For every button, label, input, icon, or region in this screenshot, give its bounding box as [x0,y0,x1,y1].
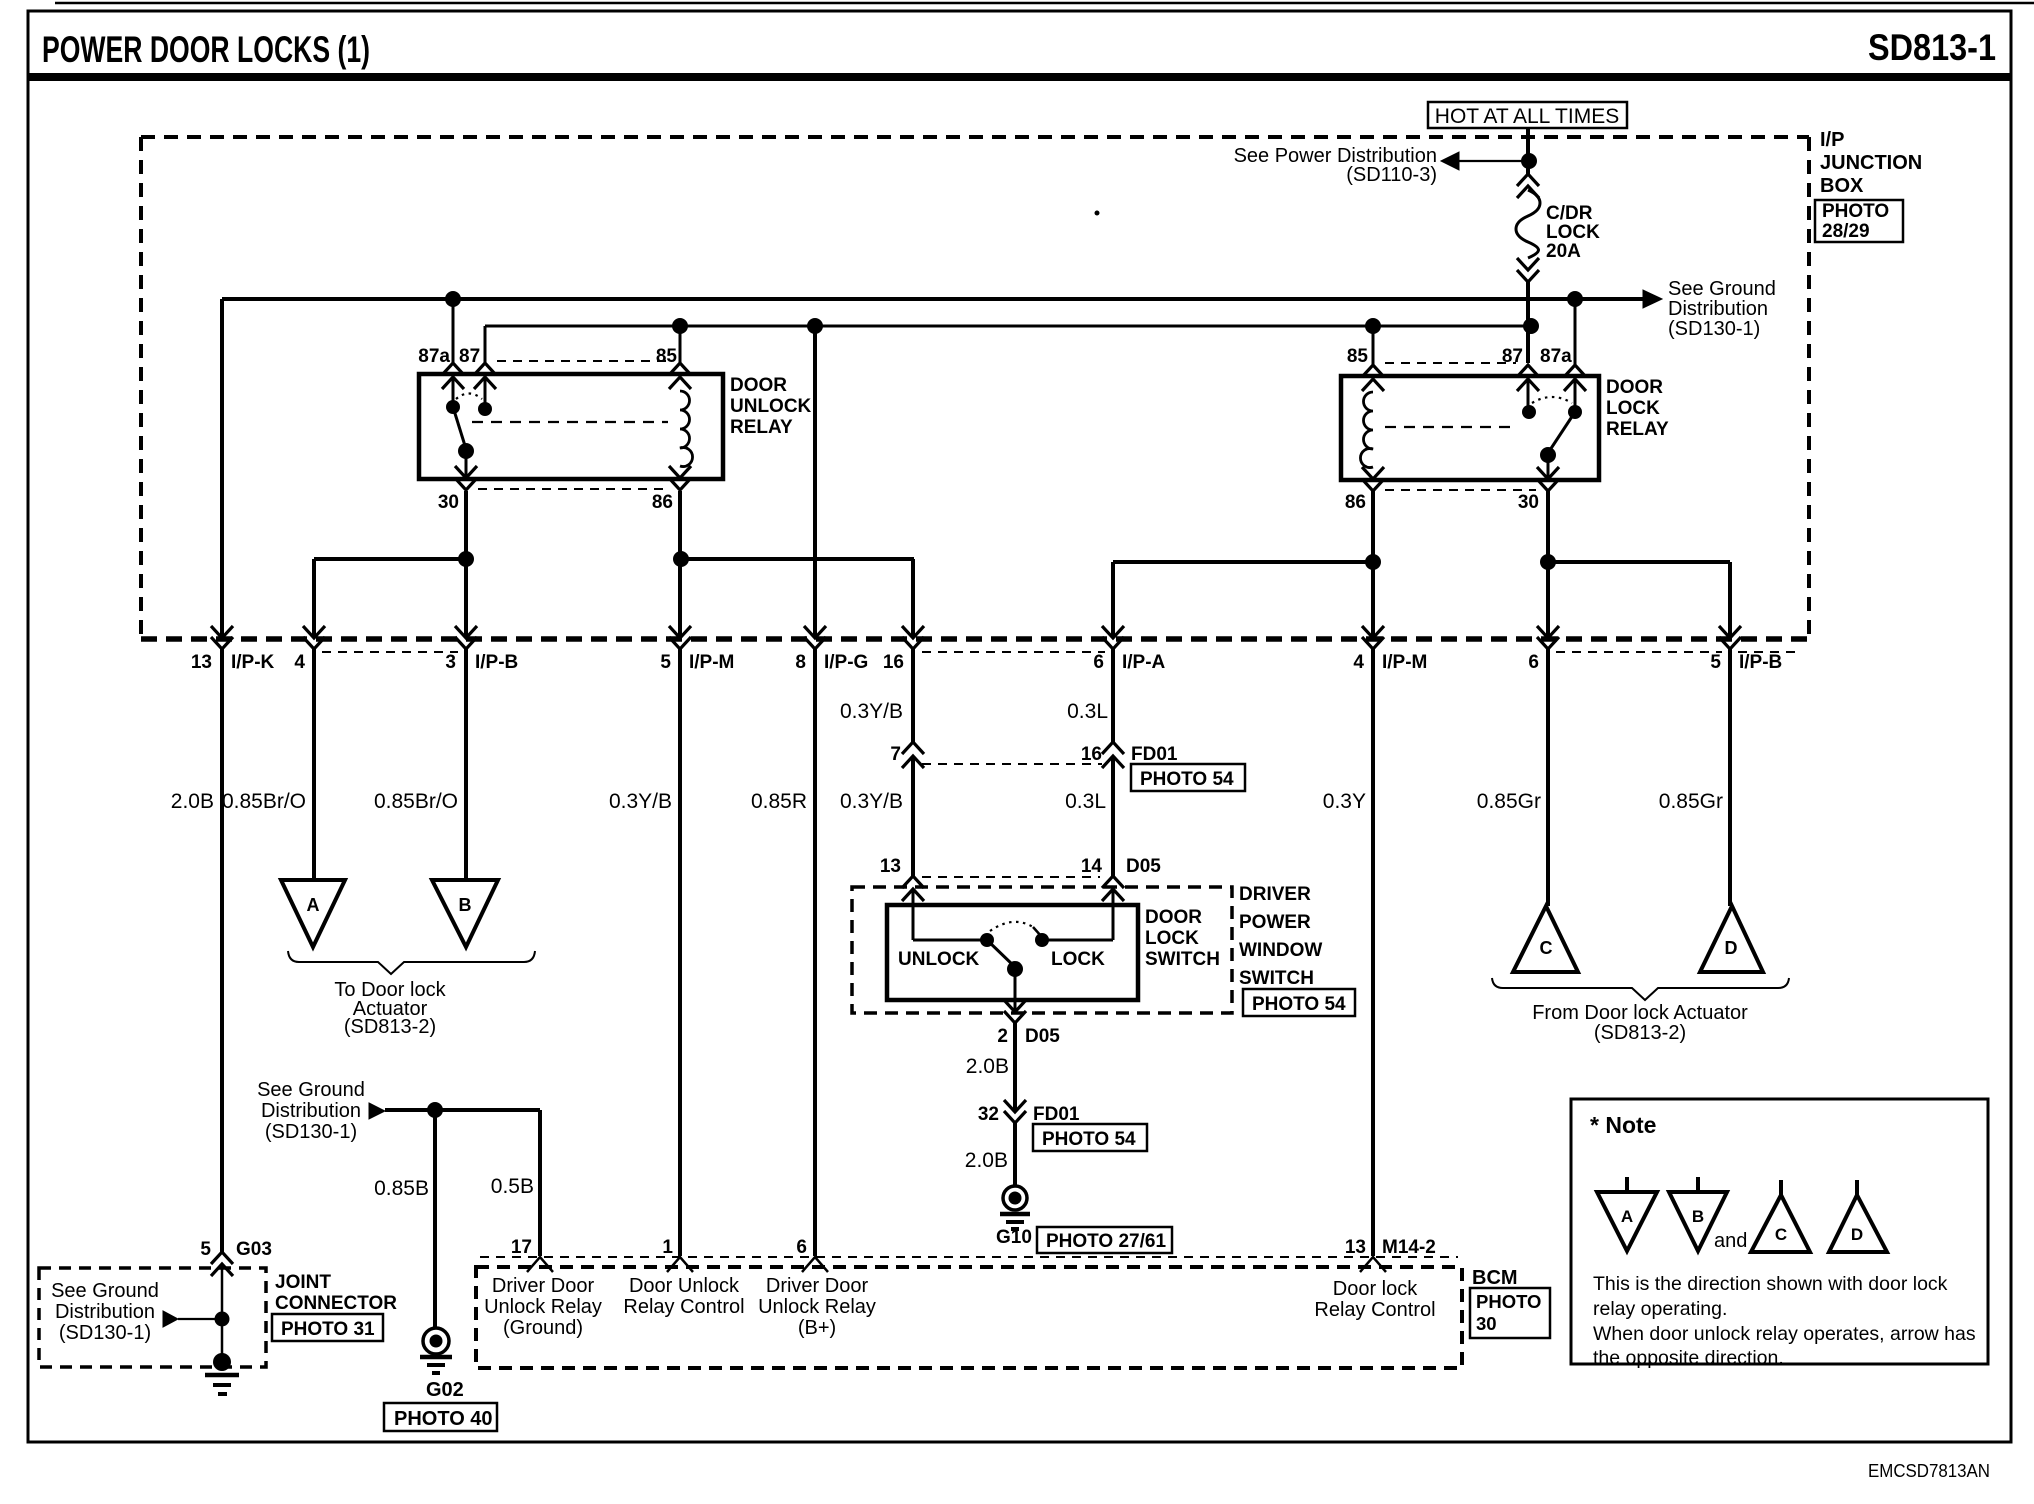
svg-text:Relay Control: Relay Control [623,1296,744,1318]
svg-text:Driver Door: Driver Door [492,1275,595,1297]
svg-text:relay operating.: relay operating. [1593,1298,1727,1320]
svg-text:DRIVER: DRIVER [1239,884,1311,905]
svg-text:2: 2 [997,1026,1008,1047]
svg-text:PHOTO 31: PHOTO 31 [281,1319,375,1340]
svg-text:LOCK: LOCK [1051,949,1105,970]
svg-text:PHOTO 54: PHOTO 54 [1140,769,1234,790]
svg-text:Distribution: Distribution [55,1301,155,1323]
svg-text:(SD130-1): (SD130-1) [1668,318,1760,340]
svg-text:WINDOW: WINDOW [1239,940,1322,961]
svg-text:3: 3 [445,652,456,673]
svg-text:C: C [1775,1225,1787,1244]
svg-text:(SD130-1): (SD130-1) [265,1121,357,1143]
svg-text:C/DR: C/DR [1546,203,1593,224]
svg-text:0.85Gr: 0.85Gr [1477,790,1541,813]
svg-text:DOOR: DOOR [1145,907,1202,928]
svg-text:(SD813-2): (SD813-2) [344,1016,436,1038]
svg-text:6: 6 [1093,652,1104,673]
svg-text:POWER: POWER [1239,912,1311,933]
svg-text:RELAY: RELAY [1606,419,1669,440]
svg-text:Unlock Relay: Unlock Relay [484,1296,602,1318]
svg-text:SWITCH: SWITCH [1239,968,1314,989]
svg-text:1: 1 [662,1237,673,1258]
svg-text:I/P-K: I/P-K [231,652,275,673]
svg-text:* Note: * Note [1590,1112,1656,1138]
svg-text:4: 4 [1353,652,1364,673]
svg-text:BOX: BOX [1820,175,1864,197]
svg-text:87a: 87a [418,346,450,367]
svg-text:A: A [1621,1207,1633,1226]
svg-text:13: 13 [880,856,901,877]
svg-text:0.3L: 0.3L [1067,700,1108,723]
svg-text:DOOR: DOOR [1606,377,1663,398]
svg-text:EMCSD7813AN: EMCSD7813AN [1868,1461,1990,1481]
svg-text:DOOR: DOOR [730,375,787,396]
svg-text:(SD110-3): (SD110-3) [1346,164,1437,186]
svg-text:Door lock: Door lock [1333,1278,1418,1300]
svg-text:When door unlock relay operate: When door unlock relay operates, arrow h… [1593,1323,1976,1345]
svg-text:RELAY: RELAY [730,417,793,438]
svg-text:13: 13 [191,652,212,673]
svg-text:I/P-M: I/P-M [689,652,734,673]
svg-text:JOINT: JOINT [275,1272,331,1293]
svg-text:G02: G02 [426,1379,464,1401]
svg-text:Driver Door: Driver Door [766,1275,869,1297]
svg-text:0.3Y/B: 0.3Y/B [840,700,903,723]
svg-text:0.3Y/B: 0.3Y/B [840,790,903,813]
svg-text:I/P-M: I/P-M [1382,652,1427,673]
svg-text:See Ground: See Ground [51,1280,159,1302]
svg-text:85: 85 [1347,346,1369,367]
svg-text:0.85R: 0.85R [751,790,807,813]
svg-text:LOCK: LOCK [1546,222,1600,243]
svg-text:I/P-G: I/P-G [824,652,868,673]
svg-text:SD813-1: SD813-1 [1868,27,1996,68]
svg-text:I/P: I/P [1820,129,1844,151]
svg-text:5: 5 [200,1239,211,1260]
svg-text:BCM: BCM [1472,1267,1518,1289]
svg-text:Distribution: Distribution [261,1100,361,1122]
svg-text:17: 17 [511,1237,532,1258]
svg-text:and: and [1714,1230,1747,1252]
svg-text:D: D [1725,938,1738,958]
svg-text:D05: D05 [1025,1026,1060,1047]
svg-text:FD01: FD01 [1033,1104,1080,1125]
svg-text:32: 32 [978,1104,999,1125]
svg-text:CONNECTOR: CONNECTOR [275,1293,397,1314]
svg-text:87: 87 [1502,346,1523,367]
svg-text:FD01: FD01 [1131,744,1178,765]
svg-text:PHOTO 40: PHOTO 40 [394,1408,493,1430]
svg-text:I/P-B: I/P-B [475,652,518,673]
svg-text:POWER DOOR LOCKS (1): POWER DOOR LOCKS (1) [42,29,370,70]
svg-text:2.0B: 2.0B [965,1149,1008,1172]
svg-text:85: 85 [656,346,678,367]
svg-text:B: B [1692,1207,1704,1226]
svg-text:(B+): (B+) [798,1317,836,1339]
svg-text:30: 30 [1518,492,1539,513]
svg-text:(SD130-1): (SD130-1) [59,1322,151,1344]
svg-text:This is the direction shown wi: This is the direction shown with door lo… [1593,1273,1948,1295]
svg-text:B: B [459,895,472,915]
svg-text:LOCK: LOCK [1145,928,1199,949]
svg-text:G10: G10 [996,1227,1032,1248]
svg-text:30: 30 [438,492,459,513]
svg-text:28/29: 28/29 [1822,221,1870,242]
svg-text:HOT AT ALL TIMES: HOT AT ALL TIMES [1435,105,1619,128]
svg-text:PHOTO 54: PHOTO 54 [1252,994,1346,1015]
svg-text:M14-2: M14-2 [1382,1237,1436,1258]
svg-text:Unlock Relay: Unlock Relay [758,1296,876,1318]
svg-text:D05: D05 [1126,856,1161,877]
svg-text:JUNCTION: JUNCTION [1820,152,1922,174]
svg-text:14: 14 [1081,856,1103,877]
svg-text:A: A [307,895,320,915]
svg-text:Door Unlock: Door Unlock [629,1275,740,1297]
svg-text:16: 16 [883,652,904,673]
svg-text:6: 6 [796,1237,807,1258]
svg-text:2.0B: 2.0B [966,1055,1009,1078]
svg-text:Distribution: Distribution [1668,298,1768,320]
svg-text:0.3L: 0.3L [1065,790,1106,813]
svg-text:6: 6 [1528,652,1539,673]
svg-text:0.3Y/B: 0.3Y/B [609,790,672,813]
svg-text:87a: 87a [1540,346,1572,367]
svg-text:Relay Control: Relay Control [1314,1299,1435,1321]
svg-text:I/P-B: I/P-B [1739,652,1782,673]
svg-text:G03: G03 [236,1239,272,1260]
svg-text:0.85Br/O: 0.85Br/O [374,790,458,813]
svg-text:86: 86 [652,492,673,513]
svg-text:I/P-A: I/P-A [1122,652,1166,673]
svg-text:20A: 20A [1546,241,1581,262]
svg-text:0.3Y: 0.3Y [1323,790,1366,813]
svg-text:87: 87 [459,346,480,367]
svg-text:7: 7 [890,744,901,765]
svg-text:PHOTO 54: PHOTO 54 [1042,1129,1136,1150]
svg-text:PHOTO 27/61: PHOTO 27/61 [1046,1231,1166,1252]
svg-text:PHOTO: PHOTO [1476,1291,1541,1312]
svg-text:the opposite direction.: the opposite direction. [1593,1347,1784,1369]
svg-text:0.85Br/O: 0.85Br/O [222,790,306,813]
svg-text:SWITCH: SWITCH [1145,949,1220,970]
svg-text:LOCK: LOCK [1606,398,1660,419]
svg-text:D: D [1851,1225,1863,1244]
svg-text:86: 86 [1345,492,1366,513]
svg-text:See Ground: See Ground [1668,278,1776,300]
svg-text:13: 13 [1345,1237,1366,1258]
svg-text:8: 8 [795,652,806,673]
svg-text:30: 30 [1476,1313,1497,1334]
svg-text:C: C [1540,938,1553,958]
svg-text:PHOTO: PHOTO [1822,201,1889,222]
svg-text:4: 4 [294,652,305,673]
svg-text:See Ground: See Ground [257,1079,365,1101]
svg-text:(SD813-2): (SD813-2) [1594,1022,1686,1044]
svg-text:0.5B: 0.5B [491,1175,534,1198]
svg-text:From Door lock Actuator: From Door lock Actuator [1532,1002,1748,1024]
svg-text:2.0B: 2.0B [171,790,214,813]
svg-text:16: 16 [1081,744,1102,765]
svg-text:UNLOCK: UNLOCK [730,396,812,417]
svg-text:5: 5 [1710,652,1721,673]
svg-text:0.85B: 0.85B [374,1177,429,1200]
svg-text:0.85Gr: 0.85Gr [1659,790,1723,813]
svg-text:(Ground): (Ground) [503,1317,583,1339]
svg-text:5: 5 [660,652,671,673]
svg-text:UNLOCK: UNLOCK [898,949,980,970]
